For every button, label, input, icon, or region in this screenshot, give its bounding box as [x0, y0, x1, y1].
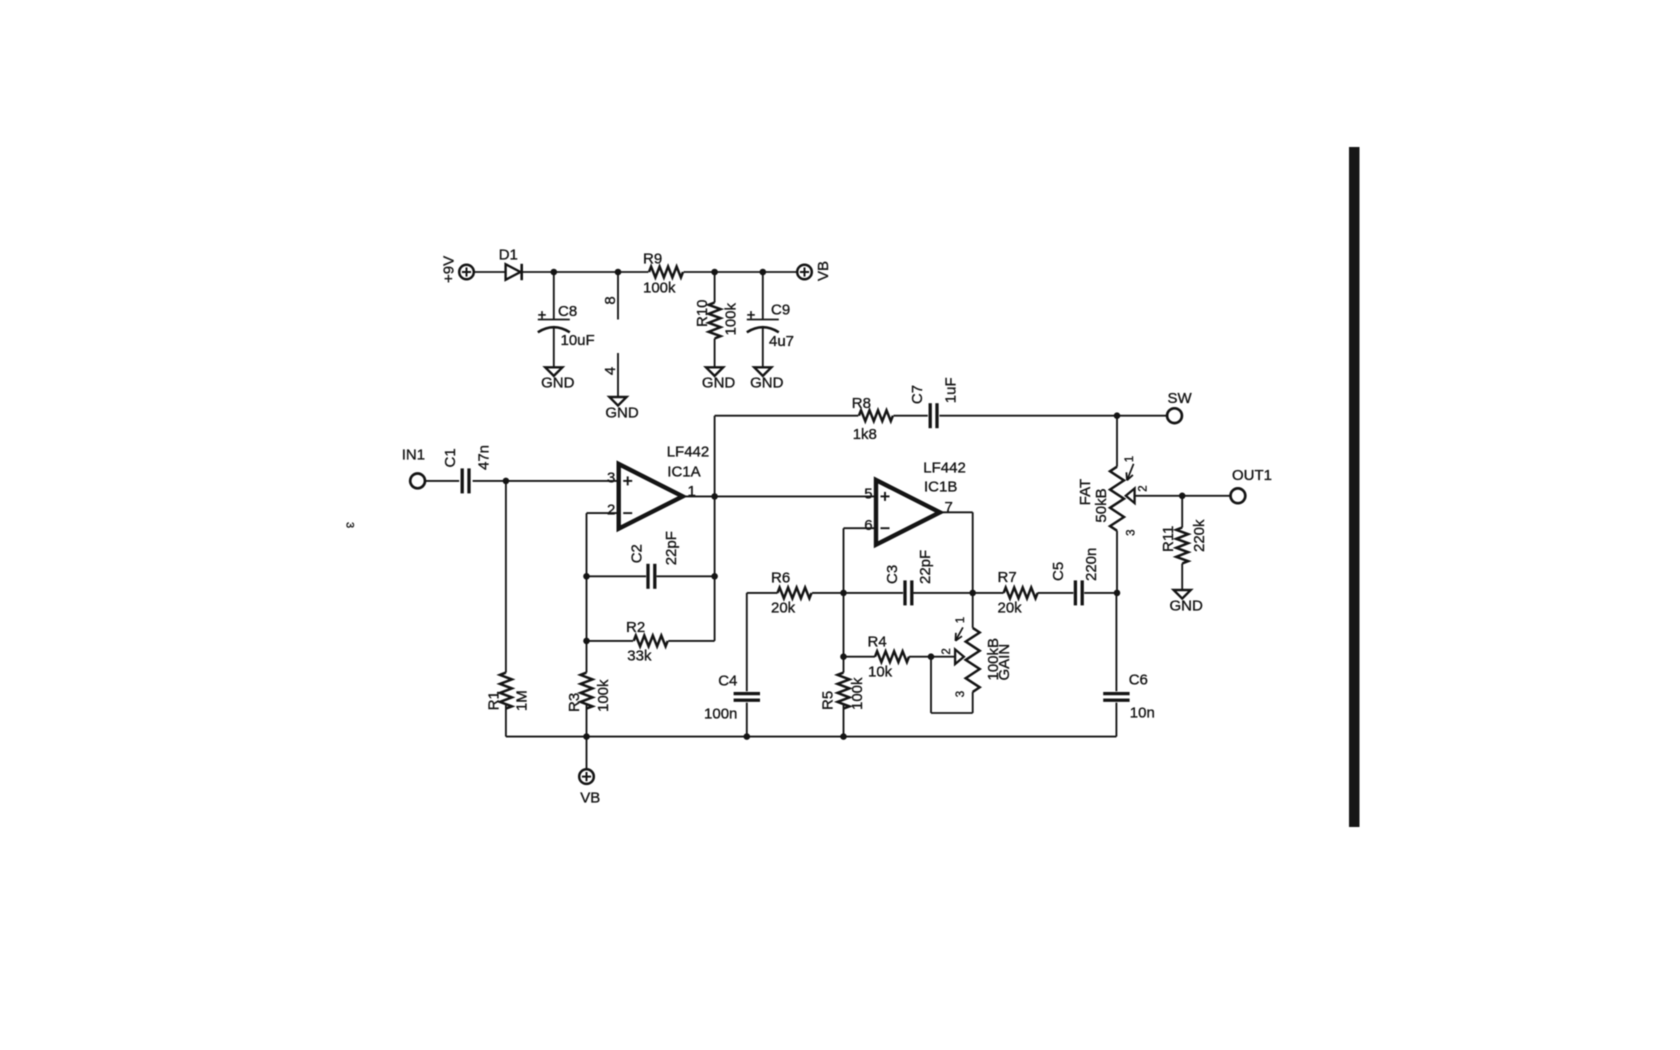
- svg-text:IC1B: IC1B: [924, 479, 957, 496]
- svg-text:C4: C4: [718, 673, 737, 690]
- svg-text:1: 1: [688, 483, 696, 500]
- svg-text:GND: GND: [605, 404, 639, 421]
- svg-text:R9: R9: [643, 251, 662, 268]
- svg-text:4u7: 4u7: [769, 333, 794, 350]
- svg-text:3: 3: [607, 469, 615, 486]
- svg-text:47n: 47n: [476, 445, 493, 470]
- svg-text:33k: 33k: [627, 648, 652, 665]
- svg-text:IC1A: IC1A: [667, 464, 700, 481]
- svg-text:100n: 100n: [704, 706, 737, 723]
- svg-text:4: 4: [602, 367, 619, 375]
- svg-text:3: 3: [955, 691, 967, 697]
- svg-text:1: 1: [1124, 456, 1136, 462]
- svg-text:2: 2: [607, 501, 615, 518]
- svg-text:100k: 100k: [723, 302, 740, 335]
- svg-text:GAIN: GAIN: [996, 644, 1013, 681]
- svg-text:SW: SW: [1168, 390, 1193, 407]
- svg-text:R4: R4: [868, 634, 887, 651]
- svg-text:R2: R2: [626, 619, 645, 636]
- svg-text:7: 7: [945, 499, 953, 516]
- svg-text:LF442: LF442: [667, 444, 710, 461]
- svg-text:1uF: 1uF: [942, 377, 959, 403]
- svg-text:1k8: 1k8: [853, 426, 877, 443]
- svg-text:GND: GND: [750, 375, 784, 392]
- svg-text:20k: 20k: [771, 600, 796, 617]
- svg-text:R3: R3: [566, 693, 583, 712]
- svg-text:R7: R7: [998, 569, 1017, 586]
- svg-text:3: 3: [344, 522, 356, 528]
- svg-text:R11: R11: [1160, 526, 1177, 552]
- svg-text:FAT: FAT: [1077, 479, 1094, 505]
- svg-text:R10: R10: [694, 299, 711, 327]
- svg-text:10uF: 10uF: [561, 332, 595, 349]
- svg-text:R5: R5: [819, 691, 836, 710]
- svg-text:C9: C9: [771, 302, 790, 319]
- svg-text:100k: 100k: [595, 679, 612, 712]
- svg-text:22pF: 22pF: [917, 550, 934, 584]
- svg-text:C5: C5: [1050, 562, 1067, 581]
- svg-text:OUT1: OUT1: [1232, 467, 1272, 484]
- svg-text:20k: 20k: [998, 600, 1023, 617]
- svg-text:GND: GND: [1170, 597, 1204, 614]
- svg-text:R8: R8: [852, 395, 871, 412]
- svg-text:10k: 10k: [868, 664, 893, 681]
- svg-text:1: 1: [955, 617, 967, 623]
- svg-text:220k: 220k: [1191, 519, 1208, 552]
- svg-text:GND: GND: [541, 375, 575, 392]
- svg-text:220n: 220n: [1083, 548, 1100, 581]
- svg-text:R1: R1: [485, 691, 502, 710]
- svg-text:10n: 10n: [1130, 705, 1155, 722]
- svg-text:VB: VB: [580, 790, 600, 807]
- svg-text:22pF: 22pF: [663, 531, 680, 565]
- svg-text:2: 2: [941, 648, 953, 654]
- svg-text:R6: R6: [771, 570, 790, 587]
- svg-text:C8: C8: [558, 303, 577, 320]
- svg-text:1M: 1M: [514, 690, 531, 711]
- svg-text:VB: VB: [815, 261, 832, 281]
- svg-text:100k: 100k: [849, 677, 866, 710]
- svg-text:C6: C6: [1129, 672, 1148, 689]
- svg-text:C3: C3: [884, 565, 901, 584]
- svg-text:C1: C1: [442, 448, 459, 467]
- svg-text:100k: 100k: [643, 280, 676, 297]
- svg-text:+9V: +9V: [441, 256, 458, 283]
- svg-text:3: 3: [1125, 529, 1137, 535]
- svg-text:D1: D1: [499, 247, 518, 264]
- svg-text:2: 2: [1138, 485, 1150, 491]
- svg-text:LF442: LF442: [923, 459, 966, 476]
- svg-text:6: 6: [864, 517, 872, 534]
- svg-text:GND: GND: [702, 375, 736, 392]
- svg-text:IN1: IN1: [402, 447, 425, 464]
- svg-text:C2: C2: [628, 544, 645, 563]
- svg-text:C7: C7: [909, 385, 926, 404]
- svg-text:5: 5: [864, 485, 872, 502]
- svg-text:8: 8: [602, 296, 619, 304]
- svg-text:50kB: 50kB: [1093, 488, 1110, 522]
